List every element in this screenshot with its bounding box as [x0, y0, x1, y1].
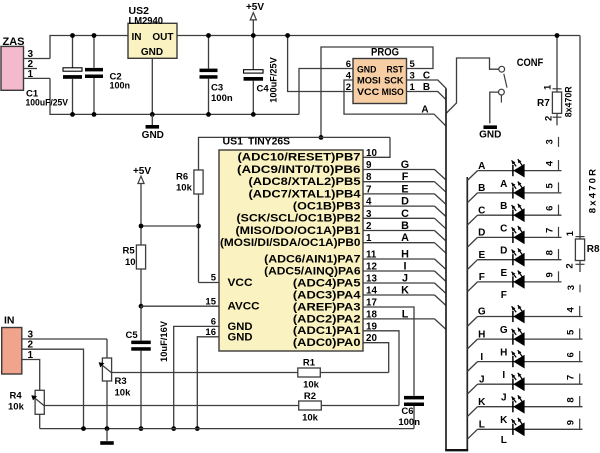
svg-text:1: 1: [27, 69, 33, 80]
svg-text:C: C: [423, 71, 430, 82]
svg-text:L: L: [402, 308, 409, 320]
svg-text:A: A: [478, 161, 485, 172]
svg-text:100n: 100n: [398, 417, 420, 428]
svg-text:US1: US1: [223, 136, 244, 148]
wire PROG VCC riser: [288, 36, 353, 92]
LED L pin 9: [579, 419, 581, 429]
svg-text:GND: GND: [357, 64, 377, 74]
svg-text:K: K: [478, 397, 486, 408]
junction C4 top: [251, 33, 256, 38]
svg-text:L: L: [501, 435, 507, 446]
capacitor C1: [72, 36, 74, 68]
svg-text:ZAS: ZAS: [3, 36, 25, 48]
svg-text:3: 3: [545, 139, 556, 144]
junction C3 bottom: [206, 112, 211, 117]
capacitor C5: [140, 306, 142, 340]
svg-text:(ADC8/XTAL2)PB5: (ADC8/XTAL2)PB5: [249, 176, 361, 188]
svg-text:6: 6: [346, 59, 351, 70]
svg-text:G: G: [478, 307, 486, 318]
svg-text:R8: R8: [587, 244, 600, 255]
svg-text:F: F: [402, 171, 409, 183]
LED A pin 4: [558, 160, 560, 170]
wire R1 to pin20: [320, 372, 388, 374]
junction C1 top: [70, 33, 75, 38]
svg-text:10k: 10k: [303, 379, 320, 390]
svg-text:I: I: [404, 261, 407, 273]
svg-text:(ADC6/AIN1)PA7: (ADC6/AIN1)PA7: [264, 253, 360, 265]
svg-text:OUT: OUT: [152, 32, 173, 43]
LED F row: [467, 282, 477, 292]
LED I pin 6: [579, 351, 581, 361]
connector IN box: [2, 328, 22, 375]
svg-text:1: 1: [565, 230, 576, 236]
junction VCC node: [196, 224, 201, 229]
svg-text:+5V: +5V: [133, 166, 151, 177]
svg-text:7: 7: [565, 375, 576, 380]
svg-text:E: E: [401, 183, 408, 195]
svg-text:R1: R1: [303, 358, 316, 369]
svg-text:J: J: [501, 393, 507, 404]
svg-text:2: 2: [564, 263, 575, 268]
svg-text:J: J: [402, 273, 408, 285]
wire ZAS1 to ground rail: [50, 78, 299, 114]
svg-text:4: 4: [565, 306, 576, 312]
svg-text:10k: 10k: [115, 387, 132, 398]
capacitor C4: [244, 70, 263, 73]
junction C1 bottom: [70, 112, 75, 117]
svg-text:C6: C6: [401, 406, 413, 417]
svg-text:VCC: VCC: [228, 277, 253, 289]
R8 pin 1: [576, 236, 585, 238]
svg-text:9: 9: [565, 420, 576, 425]
wire R3 to ground: [106, 381, 108, 429]
LED B row: [467, 193, 477, 203]
svg-text:G: G: [500, 325, 508, 336]
junction C4 bottom: [251, 112, 256, 117]
wire CONF to bus: [446, 58, 499, 114]
svg-text:R2: R2: [304, 391, 316, 402]
svg-text:+5V: +5V: [246, 2, 264, 13]
svg-text:100n: 100n: [211, 93, 233, 104]
LED C row: [467, 215, 477, 225]
svg-text:K: K: [500, 415, 508, 426]
wire +5V to R7: [556, 36, 558, 93]
svg-text:LM2940: LM2940: [129, 15, 164, 27]
svg-text:A: A: [401, 232, 409, 244]
LED E pin 8: [558, 249, 560, 259]
svg-text:J: J: [479, 374, 485, 385]
svg-text:C3: C3: [211, 83, 223, 94]
svg-text:R5: R5: [123, 246, 136, 257]
wire IN3 to R3: [106, 339, 108, 358]
svg-text:D: D: [500, 246, 507, 257]
resistor R8: [575, 239, 584, 261]
svg-text:R7: R7: [537, 98, 550, 109]
ground symbol CONF: [483, 125, 497, 129]
svg-text:8: 8: [544, 250, 555, 255]
svg-text:I: I: [480, 352, 483, 363]
ground rail bottom: [40, 428, 414, 430]
svg-text:(ADC5/AINQ)PA6: (ADC5/AINQ)PA6: [264, 265, 360, 277]
svg-text:3: 3: [566, 285, 577, 290]
junction C2 bottom: [92, 112, 97, 117]
svg-text:D: D: [401, 196, 409, 208]
svg-text:VCC: VCC: [357, 87, 380, 97]
svg-text:R3: R3: [115, 376, 127, 387]
svg-text:(MOSI/DI/SDA/OC1A)PB0: (MOSI/DI/SDA/OC1A)PB0: [220, 237, 361, 249]
wire R4 wiper to R2: [45, 405, 299, 407]
US1 pin 17 wire to C6: [363, 307, 414, 396]
svg-text:GND: GND: [228, 332, 253, 344]
wire RESET line: [199, 137, 391, 170]
svg-text:A: A: [500, 179, 507, 190]
svg-text:F: F: [501, 290, 507, 301]
wire ZAS3 to input rail: [50, 36, 128, 59]
svg-text:(ADC10/RESET)PB7: (ADC10/RESET)PB7: [238, 152, 361, 164]
svg-text:IN: IN: [4, 315, 15, 327]
svg-text:PROG: PROG: [371, 46, 399, 58]
wire R4 to ground rail: [39, 414, 41, 428]
R7 pin 2: [556, 113, 558, 125]
svg-text:CONF: CONF: [517, 57, 544, 69]
svg-text:D: D: [478, 228, 485, 239]
LED H row: [467, 339, 477, 349]
svg-text:10k: 10k: [176, 183, 193, 194]
svg-text:(ADC3)PA4: (ADC3)PA4: [293, 289, 361, 301]
svg-text:SCK: SCK: [384, 76, 404, 86]
svg-text:(AREF)PA3: (AREF)PA3: [293, 301, 361, 313]
wire +5V rail to R8: [579, 36, 581, 240]
IN pin 1: [22, 360, 40, 391]
svg-text:R6: R6: [176, 172, 188, 183]
ground symbol US2: [151, 114, 153, 125]
svg-text:B: B: [401, 220, 409, 232]
svg-text:TINY26S: TINY26S: [248, 136, 290, 148]
switch CONF contact 1: [499, 66, 505, 72]
wire PROG MISO to B: [407, 92, 447, 100]
svg-text:L: L: [479, 420, 485, 431]
wire PROG MOSI to A: [344, 80, 446, 126]
svg-text:(ADC4)PA5: (ADC4)PA5: [293, 277, 361, 289]
R7 pin 1: [553, 88, 562, 90]
R8 pin 2: [579, 261, 581, 273]
svg-text:H: H: [500, 347, 507, 358]
wire US2 GND: [151, 58, 153, 114]
svg-text:GND: GND: [141, 47, 163, 58]
LED K row: [467, 407, 477, 417]
svg-text:F: F: [479, 272, 485, 283]
svg-text:RST: RST: [387, 64, 404, 74]
svg-text:6: 6: [565, 352, 576, 357]
potentiometer R3: [102, 358, 111, 381]
svg-text:GND: GND: [142, 130, 164, 141]
resistor R5: [136, 245, 145, 269]
LED J pin 7: [579, 374, 581, 384]
svg-text:8x470R: 8x470R: [587, 167, 598, 213]
junction C2 top: [92, 33, 97, 38]
ZAS pin 2: [24, 68, 38, 70]
R7 pin 3: [558, 137, 560, 147]
svg-text:K: K: [401, 285, 409, 297]
potentiometer R4: [35, 390, 44, 414]
svg-text:(ADC1)PA1: (ADC1)PA1: [293, 325, 361, 337]
wire PROG RST loop: [321, 47, 433, 137]
svg-text:1: 1: [543, 84, 554, 90]
svg-text:5: 5: [544, 183, 555, 189]
svg-text:C: C: [500, 224, 507, 235]
svg-text:MOSI: MOSI: [357, 76, 381, 86]
svg-text:15: 15: [205, 296, 216, 307]
LED I row: [467, 362, 477, 372]
LED K pin 8: [579, 396, 581, 406]
svg-text:6: 6: [544, 206, 555, 211]
ZAS pin 1: [24, 77, 51, 79]
LED B pin 5: [558, 182, 560, 192]
connector ZAS box: [1, 46, 24, 90]
wire R3 wiper to R1: [112, 372, 298, 374]
svg-text:R4: R4: [10, 390, 23, 401]
svg-text:GND: GND: [479, 129, 501, 140]
wire R2 to pin19: [321, 405, 399, 407]
LED D pin 7: [558, 227, 560, 237]
resistor R1: [298, 368, 321, 377]
capacitor C3: [208, 36, 210, 69]
wire R6 to VCC node: [198, 194, 200, 283]
svg-text:I: I: [502, 370, 505, 381]
svg-text:B: B: [478, 183, 485, 194]
svg-text:AVCC: AVCC: [228, 301, 260, 313]
wire R5 to AVCC: [140, 269, 142, 306]
regulator US2 box: [128, 23, 177, 58]
svg-text:(ADC2)PA2: (ADC2)PA2: [293, 313, 361, 325]
wire AVCC: [141, 305, 219, 307]
svg-text:(ADC7/XTAL1)PB4: (ADC7/XTAL1)PB4: [249, 188, 362, 200]
svg-text:MISO: MISO: [382, 87, 404, 97]
svg-text:4: 4: [544, 160, 555, 166]
svg-text:H: H: [478, 329, 485, 340]
wire +5V to R6 node: [141, 225, 199, 227]
svg-text:10uF/16V: 10uF/16V: [159, 321, 169, 362]
resistor R7: [552, 92, 561, 113]
LED J row: [467, 384, 477, 394]
svg-text:100uF/25V: 100uF/25V: [26, 98, 69, 108]
LED C pin 6: [558, 205, 560, 215]
ic US1 box: [219, 150, 363, 351]
svg-text:B: B: [500, 201, 507, 212]
LED H pin 5: [579, 329, 581, 339]
resistor R6: [194, 170, 203, 194]
svg-text:(SCK/SCL/OC1B)PB2: (SCK/SCL/OC1B)PB2: [237, 213, 361, 225]
svg-text:100n: 100n: [110, 81, 131, 91]
bus bottom: [445, 449, 468, 451]
R8 pin 3: [579, 285, 581, 293]
LED G pin 4: [579, 306, 581, 316]
capacitor C6: [404, 396, 424, 400]
junction RST line: [319, 135, 324, 140]
US1 pin 19 wire to R2: [363, 331, 399, 406]
US1 pin 10 wire to RESET: [363, 137, 390, 157]
svg-text:C: C: [401, 208, 409, 220]
svg-text:C4: C4: [257, 84, 270, 95]
LED E row: [467, 260, 477, 270]
ZAS pin 3: [24, 58, 51, 60]
connector PROG box: [353, 59, 407, 104]
svg-text:IN: IN: [132, 32, 142, 43]
svg-text:10k: 10k: [302, 413, 319, 424]
svg-text:5: 5: [565, 329, 576, 335]
svg-text:A: A: [421, 105, 428, 116]
switch CONF lever: [504, 74, 507, 88]
svg-text:(ADC9/INT0/T0)PB6: (ADC9/INT0/T0)PB6: [237, 164, 361, 176]
svg-text:2: 2: [543, 116, 554, 121]
+5V rail from US2 OUT: [177, 35, 580, 37]
ground symbol bottom: [106, 429, 108, 441]
svg-text:10k: 10k: [8, 402, 25, 413]
svg-text:B: B: [423, 82, 430, 93]
US1 pin 20 wire to R1: [363, 343, 389, 373]
svg-text:C5: C5: [126, 330, 139, 341]
LED D row: [467, 237, 477, 247]
svg-text:1: 1: [27, 350, 33, 361]
LED F pin 9: [558, 271, 560, 281]
svg-text:(OC1B)PB3: (OC1B)PB3: [293, 201, 361, 213]
svg-text:H: H: [401, 249, 409, 261]
svg-text:(ADC0)PA0: (ADC0)PA0: [293, 337, 361, 349]
svg-text:G: G: [401, 159, 409, 171]
svg-text:C: C: [478, 205, 485, 216]
IN pin 2: [22, 349, 84, 428]
LED L row: [467, 429, 477, 439]
svg-text:8: 8: [565, 397, 576, 402]
svg-text:100uF/25V: 100uF/25V: [269, 57, 279, 103]
svg-text:7: 7: [544, 228, 555, 233]
svg-text:2: 2: [346, 82, 351, 93]
junction C5 bottom: [139, 426, 144, 431]
wire CONF to GND: [490, 92, 499, 123]
svg-text:E: E: [478, 250, 485, 261]
resistor R2: [299, 401, 322, 410]
svg-text:9: 9: [544, 272, 555, 277]
LED A row: [467, 171, 477, 181]
svg-text:10: 10: [125, 257, 136, 268]
svg-text:(MISO/DO/OC1A)PB1: (MISO/DO/OC1A)PB1: [236, 225, 361, 237]
IN pin 3: [22, 338, 107, 340]
junction C3 top: [206, 33, 211, 38]
switch CONF contact 2: [499, 89, 505, 95]
svg-text:E: E: [500, 268, 507, 279]
bus left line: [445, 88, 447, 450]
LED G row: [467, 317, 477, 327]
bus right line: [466, 177, 468, 450]
capacitor C2: [93, 36, 95, 68]
wire PROG SCK to C: [407, 80, 447, 88]
svg-text:8x470R: 8x470R: [563, 86, 574, 117]
wire PROG GND riser: [299, 69, 353, 115]
